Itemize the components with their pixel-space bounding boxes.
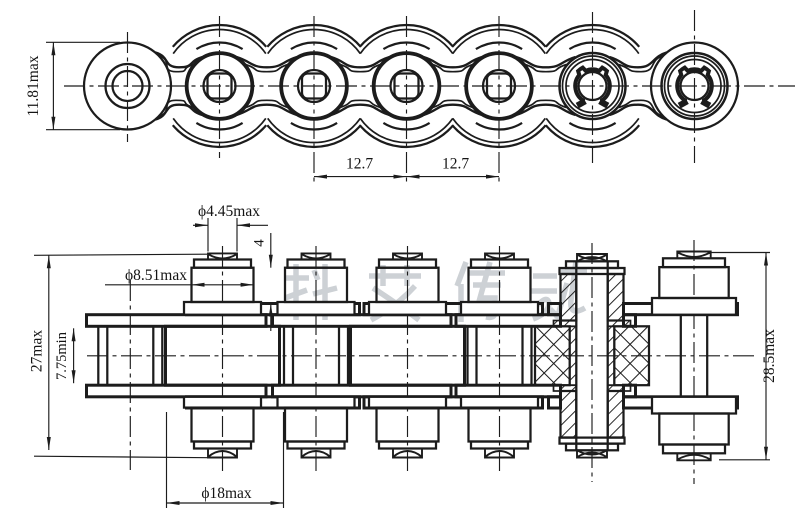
- bushing section left column lower pin 6: [561, 391, 577, 438]
- dimension 28.5max line: [764, 253, 768, 460]
- bushing ring middle circle pin 6: [563, 56, 623, 116]
- outer plate (top, plan) strip x 548-560: [549, 304, 561, 315]
- dimension 12.7 line: [314, 175, 499, 179]
- wire plate waist inner contour between pins 6-7 (bottom): [619, 100, 664, 116]
- pin riveted end top pin 6: [577, 254, 607, 261]
- dimension 28.5max extension lines: [710, 253, 770, 460]
- outer plate (top, plan) strip x 364-542: [364, 304, 543, 315]
- wire plate waist outer contour between pins 4-5 (top): [424, 57, 483, 67]
- riveted pin end (square) pin 3: [302, 74, 326, 99]
- roller large-diameter arc inner pin 6 (top): [546, 29, 639, 53]
- roller large-diameter arc inner pin 5 (top): [453, 29, 546, 53]
- bushing ring inner circle pin 4: [375, 54, 439, 118]
- wire vertical centerline pin 5 (plan view): [499, 246, 501, 472]
- pin riveted end pin 2 bottom: [208, 449, 237, 458]
- wire vertical centerline pin 2 (side view): [219, 16, 221, 158]
- roller large-diameter arc outer pin 6 (top): [546, 25, 639, 47]
- dimension text 11.81max: [25, 55, 42, 116]
- roller large-diameter arc outer pin 5 (bottom): [452, 125, 545, 147]
- roller large-diameter arc outer pin 2 (bottom): [173, 125, 266, 147]
- spring clip leg pin 6: [600, 101, 608, 105]
- bushing barrel pin 4 top: [377, 268, 439, 302]
- pin riveted end pin 4 top: [393, 253, 422, 259]
- svg-text:12.7: 12.7: [346, 156, 373, 173]
- bushing ring outer circle pin 7: [662, 53, 728, 119]
- roller large-diameter arc inner pin 5 (bottom): [453, 118, 546, 142]
- roller large-diameter arc inner pin 2 (bottom): [173, 118, 266, 142]
- pin riveted end pin 5 bottom: [485, 449, 514, 458]
- bushing bore lines pin 1 (plan): [107, 326, 153, 385]
- washer top pin 6: [560, 268, 625, 274]
- bushing section right column upper pin 6: [608, 274, 624, 321]
- bushing section right column lower pin 6: [608, 391, 624, 438]
- plate head arc bottom pin 6: [569, 123, 615, 130]
- link plate head circle, pin 1 (end link): [84, 43, 171, 130]
- plate head arc top pin 4: [383, 42, 429, 49]
- wire plate waist outer contour between pins 5-6 (top): [516, 57, 576, 67]
- dimension 7.75min line: [72, 328, 76, 383]
- connecting pin shaft lines pin 7 (band): [681, 315, 707, 397]
- pin riveted end pin 3 bottom: [302, 449, 331, 458]
- bushing ring inner circle pin 2: [188, 54, 252, 118]
- plate head arc bottom pin 4: [383, 123, 429, 130]
- bushing section wall right (band) pin 6: [608, 326, 615, 385]
- riveted pin end (square) pin 2: [208, 74, 232, 99]
- dimension 4 line: [269, 233, 273, 331]
- bushing flange pin 3 top: [278, 302, 355, 315]
- plate head arc bottom pin 5: [476, 123, 522, 130]
- roller large-diameter arc outer pin 4 (bottom): [360, 125, 453, 147]
- inner plate (top, plan) strip x 272-451: [273, 315, 452, 327]
- dimension 27max extension lines: [34, 254, 208, 458]
- roller large-diameter arc outer pin 4 (top): [360, 25, 453, 47]
- bushing barrel pin 5 top: [469, 268, 531, 302]
- roller large-diameter arc inner pin 6 (bottom): [546, 118, 639, 142]
- wire plate waist outer contour between pins 6-7 (top): [610, 53, 667, 68]
- roller large-diameter arc inner pin 4 (top): [360, 29, 453, 53]
- dimension φ8.51max leader: [105, 284, 192, 286]
- inner plate (top, plan) strip x 624-636: [624, 315, 636, 327]
- bushing ring outer circle pin 2: [186, 53, 253, 120]
- pin circle pin 2: [204, 70, 236, 102]
- dimension text φ18max: [201, 485, 252, 502]
- pin circle pin 3: [298, 70, 330, 102]
- pin circle pin 4: [391, 70, 423, 102]
- bushing barrel pin 2 top: [192, 268, 254, 302]
- dimension φ4.45max line: [193, 223, 268, 227]
- wire plate waist outer contour between pins 5-6 (bottom): [516, 105, 576, 115]
- bushing bore lines pin 5 (plan): [477, 326, 523, 385]
- bushing ring inner circle pin 3: [282, 54, 346, 118]
- bushing outline pin 3 (plan): [284, 326, 348, 385]
- pin circle pin 5: [483, 70, 515, 102]
- dimension φ4.45max extension lines: [208, 218, 237, 252]
- bushing barrel pin 2 bottom: [192, 408, 254, 442]
- roller large-diameter arc inner pin 2 (top): [173, 29, 266, 53]
- pin circle pin 6: [579, 72, 607, 100]
- bushing ring inner circle pin 6: [566, 60, 619, 113]
- wire plate waist inner contour between pins 6-7 (top): [619, 56, 664, 72]
- bushing flange pin 3 bottom: [278, 397, 355, 408]
- inner plate (bottom, plan) strip x 624-636: [624, 385, 636, 397]
- bushing flange pin 5 top: [461, 302, 538, 315]
- plate head arc bottom pin 3: [291, 123, 337, 130]
- roller large-diameter arc outer pin 6 (bottom): [546, 125, 639, 147]
- inner plate (top, plan) strip x 86-266: [87, 315, 267, 327]
- bushing flange pin 2 top: [184, 302, 261, 315]
- bushing flange section bottom pin 6: [554, 385, 631, 391]
- bushing barrel pin 4 bottom: [377, 408, 439, 442]
- bushing chamfer pin 2 bottom: [194, 442, 251, 449]
- outer plate (bottom, plan) strip x 186-360: [187, 397, 360, 408]
- roller large-diameter arc outer pin 3 (bottom): [267, 125, 360, 147]
- pin riveted end pin 7 top: [677, 252, 710, 259]
- dimension text 12.7 (right): [442, 156, 469, 173]
- wire vertical centerline pin 2 (plan view): [222, 246, 224, 472]
- riveted pin end (square) pin 5: [487, 74, 511, 99]
- bushing flange pin 4 bottom: [369, 397, 446, 408]
- bushing outline pin 5 (plan): [468, 326, 532, 385]
- outer plate (top, plan) strip x 624-738: [624, 304, 738, 315]
- wire plate waist inner contour between pins 1-2 (bottom): [159, 100, 194, 116]
- bushing chamfer pin 5 top: [471, 260, 528, 268]
- bushing chamfer pin 3 bottom: [288, 442, 345, 449]
- pin riveted end pin 4 bottom: [393, 449, 422, 458]
- wire plate waist inner contour between pins 4-5 (bottom): [433, 100, 474, 107]
- plate head arc top pin 3: [291, 42, 337, 49]
- dimension text 7.75min: [54, 331, 70, 380]
- large roller section left block pin 6: [535, 326, 570, 385]
- svg-text:ϕ8.51max: ϕ8.51max: [125, 267, 187, 284]
- wire plate waist inner contour between pins 2-3 (top): [246, 65, 289, 72]
- wire vertical centerline pin 1 (plan view): [129, 280, 131, 470]
- dimension 11.81max line: [51, 42, 55, 129]
- wire plate waist inner contour between pins 5-6 (top): [525, 65, 567, 72]
- bushing chamfer pin 4 top: [379, 260, 436, 268]
- dimension text φ4.45max: [198, 203, 260, 220]
- wire plate waist inner contour between pins 5-6 (bottom): [525, 100, 567, 107]
- dimension φ18max line: [167, 501, 284, 505]
- wire plate waist inner contour between pins 4-5 (top): [433, 65, 474, 72]
- bushing ring outer circle pin 6: [560, 53, 626, 119]
- pin riveted end bottom pin 6: [577, 450, 607, 457]
- connecting plate boss pin 7 bottom: [652, 397, 736, 414]
- spring clip pin 6: [575, 68, 610, 102]
- dimension text φ8.51max: [125, 267, 187, 284]
- bushing barrel pin 5 bottom: [469, 408, 531, 442]
- bushing chamfer pin 4 bottom: [379, 442, 436, 449]
- bushing chamfer pin 2 top: [194, 260, 251, 268]
- wire plate waist inner contour between pins 3-4 (top): [340, 65, 381, 72]
- pin circle pin 7: [681, 72, 709, 100]
- pin riveted end pin 2 top: [208, 253, 237, 259]
- wire plate waist outer contour between pins 3-4 (bottom): [331, 105, 390, 115]
- dimension φ8.51max arrows: [192, 283, 254, 287]
- plate head arc top pin 2: [196, 42, 242, 49]
- connecting pin chamfer pin 7 top: [663, 258, 725, 267]
- bushing ring outer circle pin 5: [466, 53, 533, 120]
- bushing section wall left (band) pin 6: [570, 326, 577, 385]
- svg-text:11.81max: 11.81max: [25, 55, 42, 116]
- connecting link head circle pin 7: [651, 43, 738, 130]
- bushing ring outer circle pin 4: [373, 53, 440, 120]
- bushing circle pin 1: [106, 64, 150, 108]
- wire vertical centerline pin 6 (plan view): [591, 243, 593, 482]
- washer bottom pin 6: [560, 438, 625, 444]
- plate head arc top pin 6: [569, 42, 615, 49]
- svg-text:ϕ18max: ϕ18max: [201, 485, 252, 502]
- pin neck bottom pin 6: [566, 444, 618, 451]
- wire plate waist inner contour between pins 2-3 (bottom): [246, 100, 289, 107]
- spring clip leg pin 7: [679, 101, 687, 105]
- bushing ring inner circle pin 7: [668, 60, 721, 113]
- spring clip leg pin 7: [702, 101, 710, 105]
- connecting pin barrel pin 7 top: [659, 267, 728, 298]
- bushing outline pin 1 (plan): [98, 326, 162, 385]
- bushing flange section top pin 6: [554, 321, 631, 327]
- svg-text:4: 4: [252, 239, 268, 247]
- wire plate waist outer contour between pins 1-2 (bottom): [156, 105, 203, 120]
- dimension 11.81max extension lines: [46, 42, 120, 129]
- svg-text:7.75min: 7.75min: [54, 331, 70, 380]
- bushing ring outer circle pin 3: [281, 53, 348, 120]
- wire centerline of chain side view: [64, 85, 795, 87]
- dimension φ18max extension lines: [167, 412, 284, 508]
- inner plate (top, plan) strip x 456-560: [456, 315, 561, 327]
- wire vertical centerline pin 7 (plan view): [693, 240, 695, 484]
- large roller section right block pin 6: [614, 326, 649, 385]
- plate head arc top pin 5: [476, 42, 522, 49]
- roller large-diameter arc outer pin 3 (top): [267, 25, 360, 47]
- bushing flange pin 5 bottom: [461, 397, 538, 408]
- riveted pin end (square) pin 4: [395, 74, 419, 99]
- plate head arc bottom pin 2: [196, 123, 242, 130]
- dimension text 12.7 (left): [346, 156, 373, 173]
- bushing flange pin 2 bottom: [184, 397, 261, 408]
- wire plate waist outer contour between pins 2-3 (bottom): [237, 105, 298, 115]
- roller large-diameter arc inner pin 3 (bottom): [268, 118, 361, 142]
- pin riveted end pin 5 top: [485, 253, 514, 259]
- dimension 27max line: [47, 255, 51, 450]
- wire plate waist outer contour between pins 4-5 (bottom): [424, 105, 483, 115]
- pin riveted end pin 7 bottom: [677, 453, 710, 460]
- connecting plate boss pin 7 top: [652, 298, 736, 315]
- wire vertical centerline pin 6 (side view): [592, 12, 594, 163]
- outer plate (bottom, plan) strip x 624-738: [624, 397, 738, 408]
- wire centerline of chain plan view: [87, 355, 758, 357]
- wire plate waist outer contour between pins 6-7 (bottom): [610, 105, 667, 120]
- svg-text:12.7: 12.7: [442, 156, 469, 173]
- bushing barrel pin 3 bottom: [285, 408, 347, 442]
- wire vertical centerline pin 4 (plan view): [407, 246, 409, 472]
- spring clip pin 7: [677, 68, 712, 102]
- dimension text 27max: [29, 330, 46, 372]
- large roller R4 (plan): [351, 326, 465, 385]
- connecting pin barrel pin 7 bottom: [659, 414, 728, 445]
- bushing chamfer pin 5 bottom: [471, 442, 528, 449]
- pin shaft pin 6: [576, 261, 607, 450]
- large roller R2 (plan): [166, 326, 280, 385]
- svg-text:28.5max: 28.5max: [761, 329, 778, 383]
- connecting pin chamfer pin 7 bottom: [663, 445, 725, 454]
- wire vertical centerline pin 3 (plan view): [315, 246, 317, 472]
- wire plate waist outer contour between pins 2-3 (top): [237, 57, 298, 67]
- outer plate (top, plan) strip x 186-360: [187, 304, 360, 315]
- bushing flange pin 4 top: [369, 302, 446, 315]
- bushing barrel pin 3 top: [285, 268, 347, 302]
- wire vertical centerline pin 7 (side view): [694, 10, 696, 163]
- inner plate (bottom, plan) strip x 272-451: [273, 385, 452, 397]
- pin neck top pin 6: [566, 261, 618, 268]
- bushing ring inner circle pin 5: [467, 54, 531, 118]
- outer plate (bottom, plan) strip x 364-542: [364, 397, 543, 408]
- spring clip leg pin 6: [577, 101, 585, 105]
- wire plate waist inner contour between pins 1-2 (top): [159, 56, 194, 72]
- svg-text:ϕ4.45max: ϕ4.45max: [198, 203, 260, 220]
- wire plate waist outer contour between pins 3-4 (top): [331, 57, 390, 67]
- pin circle pin 1: [113, 71, 143, 101]
- bushing section left column upper pin 6: [561, 274, 577, 321]
- watermark text 科艾传动: [285, 261, 587, 322]
- dimension text 28.5max: [761, 329, 778, 383]
- inner plate (bottom, plan) strip x 86-266: [87, 385, 267, 397]
- wire vertical centerline pin 3 (side view): [313, 16, 315, 186]
- wire plate waist inner contour between pins 3-4 (bottom): [340, 100, 381, 107]
- dimension text 4: [252, 239, 268, 247]
- wire plate waist outer contour between pins 1-2 (top): [156, 53, 203, 68]
- roller large-diameter arc inner pin 4 (bottom): [360, 118, 453, 142]
- wire vertical centerline pin 1 (side view): [127, 32, 129, 142]
- outer plate (bottom, plan) strip x 548-560: [549, 397, 561, 408]
- svg-text:27max: 27max: [29, 330, 46, 372]
- bushing chamfer pin 3 top: [288, 260, 345, 268]
- roller large-diameter arc outer pin 5 (top): [452, 25, 545, 47]
- pin riveted end pin 3 top: [302, 253, 331, 259]
- wire vertical centerline pin 5 (side view): [498, 16, 500, 186]
- bushing bore lines pin 3 (plan): [293, 326, 339, 385]
- roller large-diameter arc outer pin 2 (top): [173, 25, 266, 47]
- bushing ring middle circle pin 7: [665, 56, 725, 116]
- inner plate (bottom, plan) strip x 456-560: [456, 385, 561, 397]
- roller large-diameter arc inner pin 3 (top): [268, 29, 361, 53]
- wire vertical centerline pin 4 (side view): [406, 16, 408, 186]
